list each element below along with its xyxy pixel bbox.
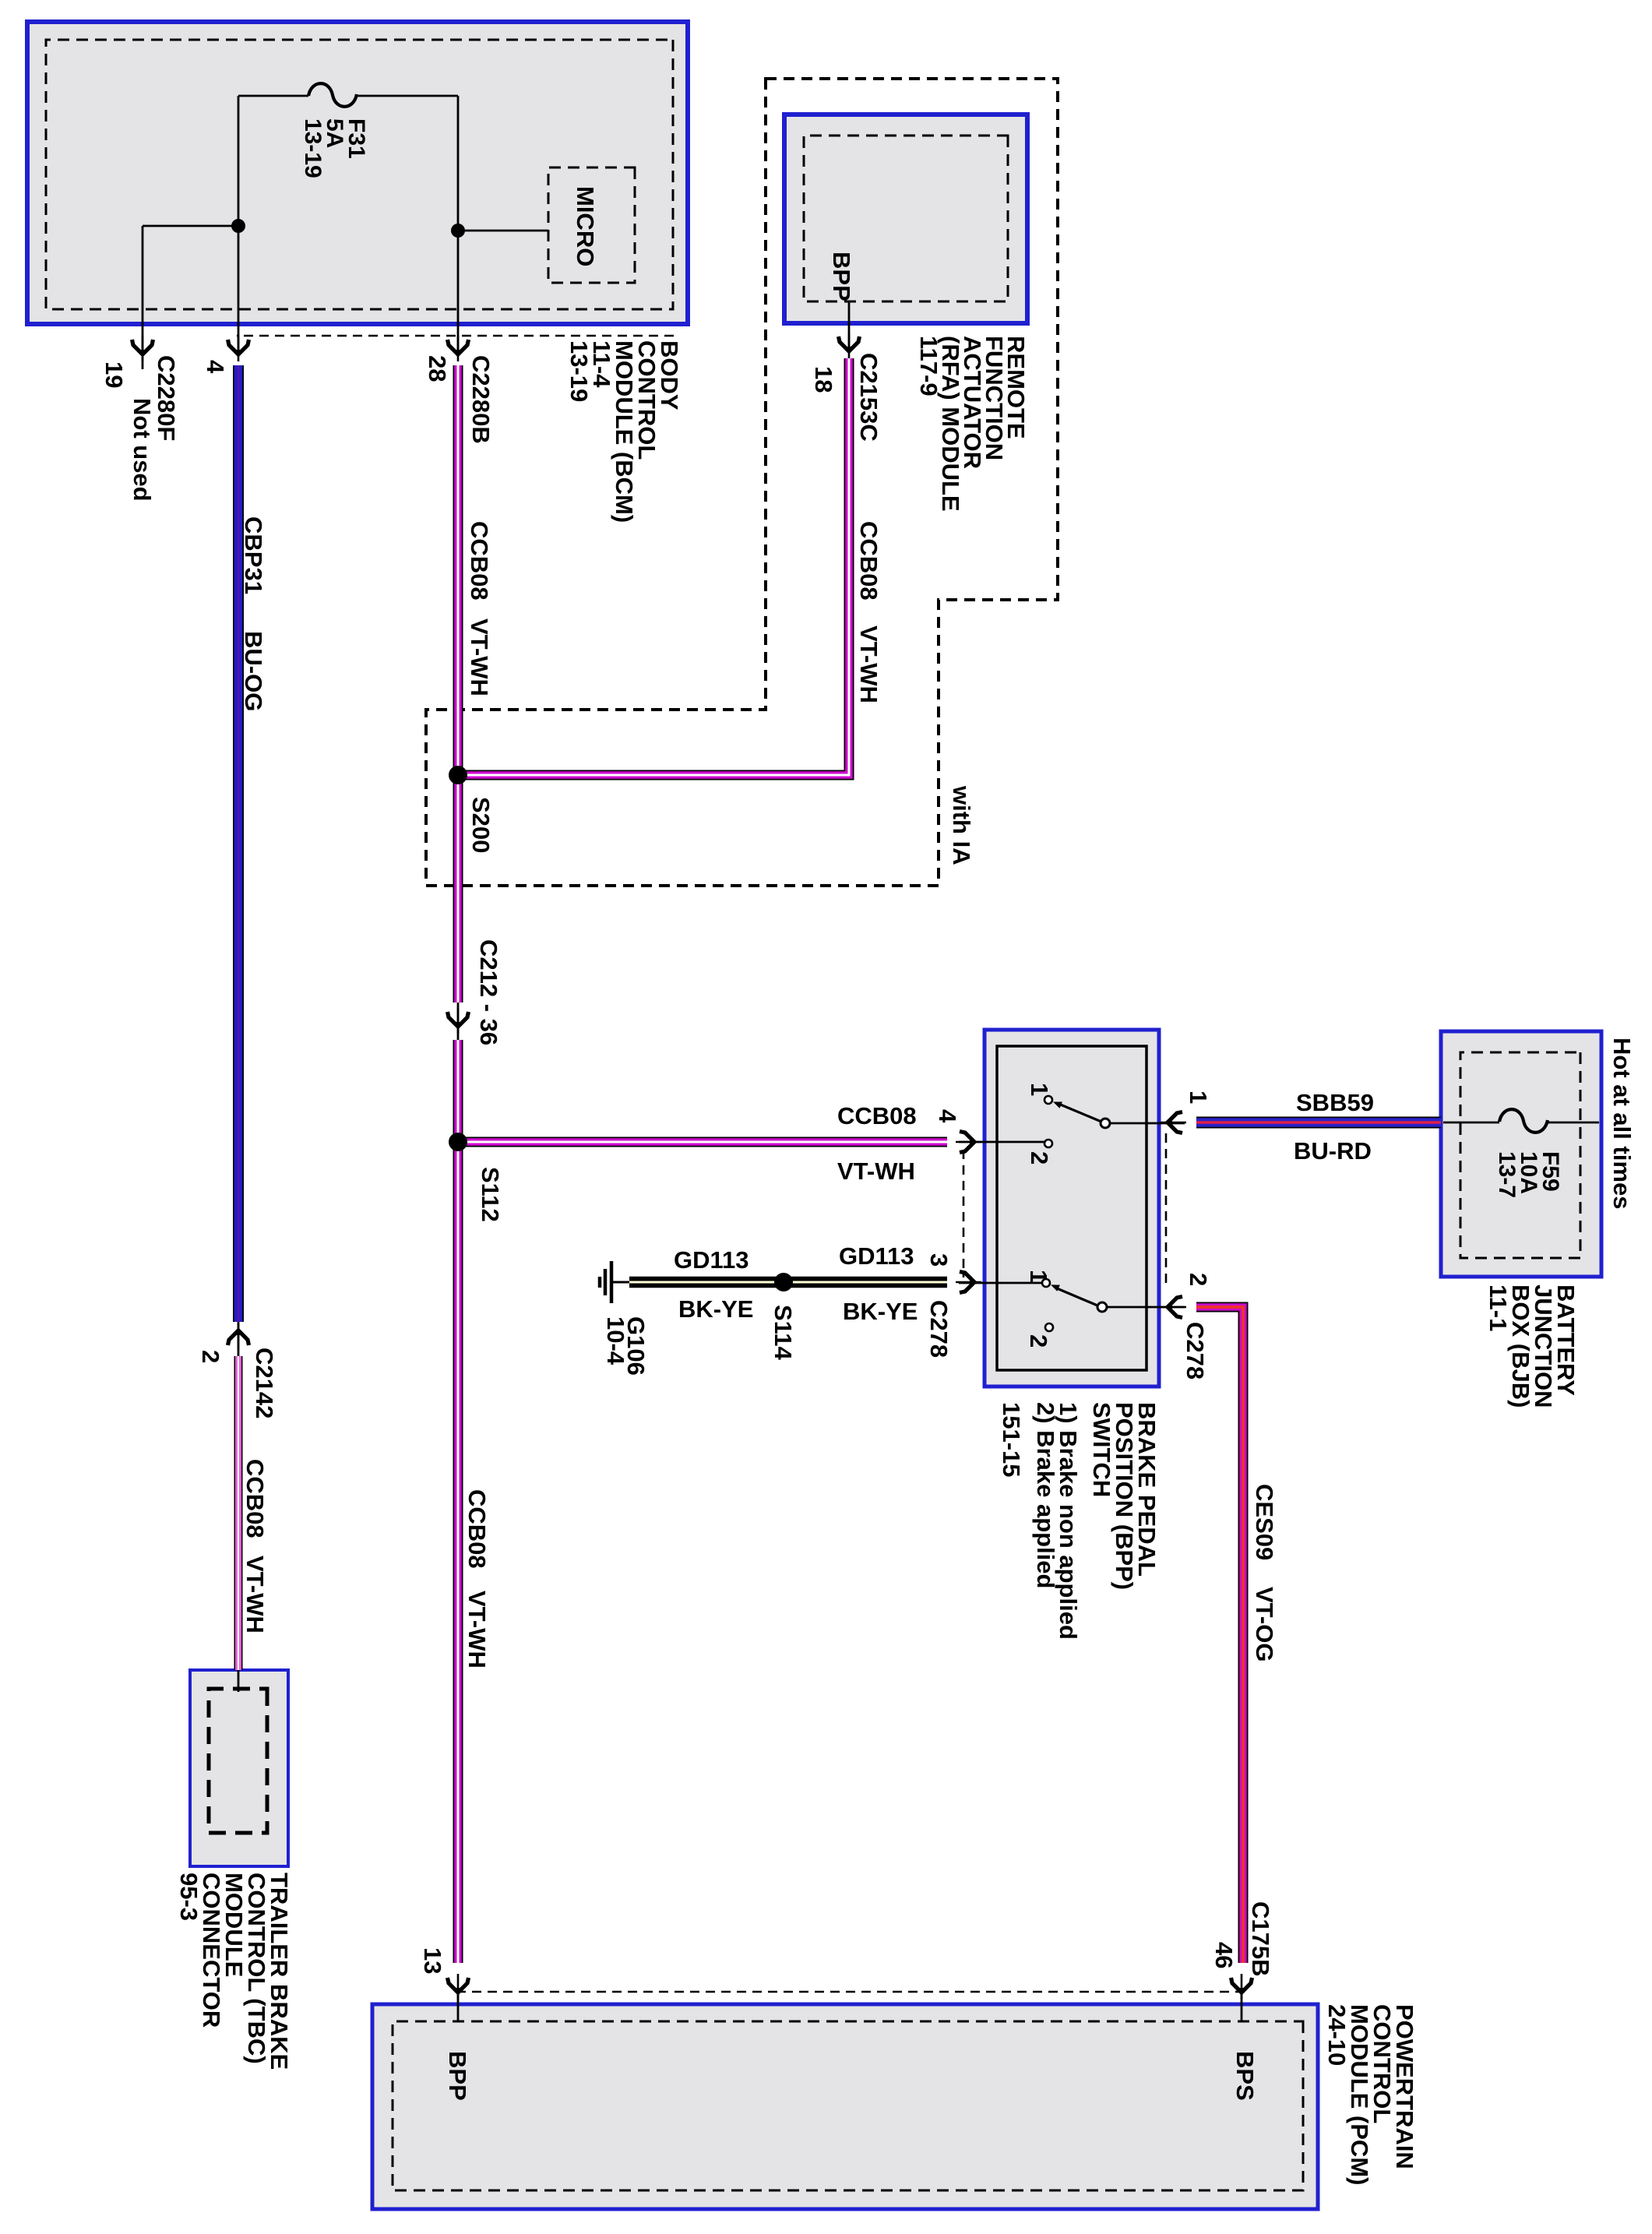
svg-text:C212 - 36: C212 - 36	[475, 939, 502, 1045]
svg-text:C278: C278	[925, 1300, 953, 1358]
svg-text:BPP: BPP	[828, 252, 855, 301]
svg-text:19: 19	[100, 361, 128, 388]
svg-text:GD113: GD113	[674, 1246, 749, 1274]
svg-text:MICRO: MICRO	[572, 186, 599, 266]
svg-text:4: 4	[934, 1109, 961, 1123]
svg-text:CCB08: CCB08	[241, 1459, 269, 1538]
svg-text:CCB08: CCB08	[463, 1489, 491, 1569]
svg-text:SBB59: SBB59	[1296, 1089, 1374, 1116]
svg-text:24-10: 24-10	[1323, 2004, 1351, 2066]
svg-text:1: 1	[1026, 1083, 1053, 1096]
svg-text:151-15: 151-15	[998, 1402, 1025, 1478]
svg-text:BPS: BPS	[1231, 2051, 1259, 2101]
svg-text:S114: S114	[770, 1305, 797, 1360]
svg-text:S112: S112	[477, 1167, 504, 1222]
svg-text:1: 1	[1025, 1270, 1052, 1283]
svg-text:2: 2	[1185, 1273, 1212, 1286]
svg-text:10-4: 10-4	[602, 1316, 629, 1365]
svg-text:BK-YE: BK-YE	[843, 1298, 918, 1325]
svg-text:CCB08: CCB08	[466, 521, 493, 601]
svg-text:C175B: C175B	[1247, 1901, 1274, 1977]
svg-text:SWITCH: SWITCH	[1088, 1402, 1115, 1497]
svg-text:Hot at all times: Hot at all times	[1608, 1038, 1636, 1210]
svg-text:CCB08: CCB08	[855, 521, 882, 601]
svg-text:CES09: CES09	[1251, 1484, 1278, 1560]
svg-text:2: 2	[1026, 1151, 1053, 1165]
svg-text:13-7: 13-7	[1494, 1151, 1520, 1198]
svg-text:2) Brake applied: 2) Brake applied	[1032, 1402, 1059, 1588]
svg-text:C2153C: C2153C	[855, 353, 882, 442]
svg-text:VT-WH: VT-WH	[241, 1556, 269, 1633]
svg-text:BPP: BPP	[444, 2051, 471, 2101]
svg-text:1: 1	[1185, 1091, 1212, 1104]
svg-text:C2280F: C2280F	[153, 355, 180, 441]
svg-text:C2280B: C2280B	[467, 355, 495, 444]
svg-text:BU-RD: BU-RD	[1294, 1137, 1372, 1165]
svg-text:2: 2	[197, 1350, 224, 1363]
svg-text:2: 2	[1025, 1334, 1052, 1348]
svg-text:VT-WH: VT-WH	[855, 625, 882, 703]
svg-text:VT-OG: VT-OG	[1251, 1587, 1278, 1661]
svg-text:S200: S200	[467, 797, 495, 853]
svg-text:3: 3	[925, 1253, 953, 1267]
svg-text:VT-WH: VT-WH	[463, 1591, 491, 1668]
svg-text:VT-WH: VT-WH	[837, 1158, 915, 1185]
svg-text:CBP31: CBP31	[240, 516, 267, 594]
svg-text:with IA: with IA	[948, 785, 975, 865]
svg-text:13-19: 13-19	[300, 118, 326, 178]
svg-text:Not used: Not used	[129, 398, 156, 502]
svg-text:28: 28	[424, 355, 451, 382]
svg-text:4: 4	[202, 360, 229, 374]
svg-text:BK-YE: BK-YE	[678, 1295, 753, 1323]
svg-text:13: 13	[419, 1947, 446, 1974]
svg-text:117-9: 117-9	[915, 336, 942, 396]
svg-text:13-19: 13-19	[565, 340, 593, 402]
svg-text:C278: C278	[1182, 1322, 1209, 1380]
svg-text:GD113: GD113	[839, 1242, 914, 1270]
svg-text:C2142: C2142	[251, 1348, 278, 1418]
svg-text:11-1: 11-1	[1485, 1284, 1512, 1331]
svg-text:BU-OG: BU-OG	[240, 631, 267, 711]
svg-text:95-3: 95-3	[175, 1873, 203, 1921]
svg-text:18: 18	[810, 366, 837, 393]
svg-text:46: 46	[1210, 1942, 1238, 1968]
svg-text:CCB08: CCB08	[837, 1102, 917, 1129]
svg-text:VT-WH: VT-WH	[466, 618, 493, 696]
